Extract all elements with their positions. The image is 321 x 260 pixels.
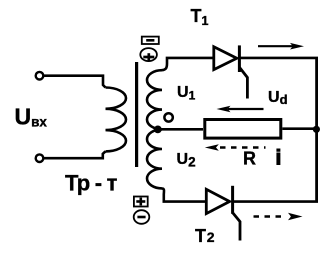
wire secondary top to T1 anode (162, 58, 214, 70)
svg-text:Ud: Ud (268, 89, 288, 107)
thyristor T1 cathode bar (238, 45, 241, 72)
transformer core (135, 62, 138, 167)
thyristor T2 cathode bar (231, 186, 234, 214)
primary top terminal (36, 72, 44, 80)
wire resistor to right rail (282, 127, 316, 130)
thyristor T1 gate (239, 67, 247, 98)
wire primary top (44, 76, 106, 88)
svg-text:Тр - т: Тр - т (65, 170, 118, 195)
svg-text:i: i (276, 146, 282, 169)
transformer secondary winding upper U1 (147, 70, 162, 129)
svg-text:R: R (243, 148, 256, 168)
current arrow top (solid right) (258, 43, 304, 50)
resistor R (205, 120, 281, 139)
voltage arrow Ud (solid left) (217, 106, 264, 113)
current arrow bottom (dashed right) (254, 213, 303, 220)
wire T2 cathode to right rail (233, 200, 318, 203)
thyristor T2 gate (233, 213, 240, 241)
thyristor T2 triangle (206, 189, 229, 213)
wire primary bottom (44, 151, 106, 158)
wire secondary bottom to T2 anode (162, 188, 206, 201)
primary bottom terminal (36, 154, 44, 162)
wire T1 cathode to right rail (239, 57, 318, 60)
transformer secondary winding lower U2 (147, 129, 162, 188)
right rail wire (315, 58, 318, 202)
polarity plus in box (bottom) (134, 197, 148, 207)
svg-text:U2: U2 (177, 151, 196, 169)
polarity plus in circle (top) (140, 48, 157, 61)
polarity minus in circle (bottom) (134, 210, 150, 224)
polarity minus in box (top) (142, 37, 159, 44)
thyristor T1 triangle (214, 47, 237, 70)
center tap junction (154, 125, 162, 133)
secondary terminal dot marker (164, 113, 172, 121)
junction dot right rail (313, 126, 320, 133)
transformer primary winding (106, 88, 127, 152)
current arrow i (dashed left) (205, 144, 266, 151)
wire center tap to resistor (158, 128, 203, 131)
svg-text:T2: T2 (195, 226, 215, 246)
